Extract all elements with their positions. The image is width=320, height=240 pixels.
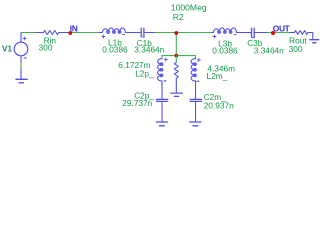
capacitor C1b (141, 28, 144, 36)
node junction top dot (174, 31, 178, 35)
ground under C2m (190, 122, 201, 126)
wire tank bus (162, 55, 196, 57)
inductor L2p_ (158, 59, 163, 81)
L2m plus mark (197, 59, 200, 62)
capacitor C2m_ (190, 99, 201, 101)
ground under C2p (156, 122, 167, 126)
L2m phase mark (197, 80, 199, 82)
ground right of Rout (310, 40, 319, 43)
V1 plus mark (23, 37, 26, 40)
wire C1b to junction (156, 32, 177, 34)
C3b tick mark (252, 37, 255, 39)
svg-text:V1: V1 (2, 44, 12, 53)
wire C3b to OUT (268, 32, 273, 34)
wire V1 top to Rin (21, 32, 36, 34)
V1 bottom lead (20, 56, 22, 63)
V1 top lead (20, 33, 22, 43)
lead L2p to C2p (161, 81, 163, 99)
capacitor C2p_ (156, 99, 167, 101)
svg-text:29.737n: 29.737n (122, 98, 152, 108)
wire stub to L2m (195, 56, 197, 59)
L3b plus mark (213, 35, 216, 38)
svg-text:20.937n: 20.937n (204, 100, 234, 110)
L3b phase mark (234, 34, 236, 36)
resistor Rout (290, 31, 313, 39)
resistor R2 vertical (175, 56, 177, 63)
svg-text:OUT: OUT (273, 24, 291, 34)
capacitor C3b (252, 28, 255, 36)
L1b phase mark (122, 33, 124, 35)
svg-text:300: 300 (39, 43, 53, 53)
V1 minus mark (24, 57, 27, 59)
ground under R2 (171, 93, 182, 96)
svg-text:0.0386: 0.0386 (212, 46, 238, 56)
ground lead under V1 (20, 69, 22, 79)
L1b plus mark (102, 35, 105, 38)
svg-text:L2m_: L2m_ (207, 71, 228, 81)
voltage source V1 (14, 42, 28, 56)
svg-text:IN: IN (70, 24, 78, 34)
C1b tick mark (141, 36, 144, 38)
resistor Rin (36, 31, 70, 35)
wire junction to L3b (176, 32, 212, 34)
wire OUT to Rout (273, 32, 289, 34)
inductor L1b (99, 28, 141, 33)
inductor L2m_ (191, 59, 196, 81)
lead L2m to C2m (195, 81, 197, 99)
svg-text:0.0386: 0.0386 (102, 45, 128, 55)
inductor L3b (212, 28, 251, 33)
svg-text:L2p_: L2p_ (135, 68, 154, 78)
wire junction down (175, 33, 177, 56)
L2p plus mark (164, 58, 167, 61)
node OUT junction dot (271, 31, 275, 35)
ground under V1 (16, 79, 27, 83)
wire V1 bottom to ground (20, 63, 22, 69)
svg-text:3.3464n: 3.3464n (134, 45, 164, 55)
svg-text:300: 300 (289, 44, 303, 54)
L2p phase mark (164, 80, 166, 82)
svg-text:3.3464n: 3.3464n (254, 46, 284, 56)
wire stub to L2p (161, 56, 163, 59)
wire IN segment (70, 32, 99, 34)
node IN junction dot (68, 31, 72, 35)
node junction mid dot (174, 54, 178, 58)
svg-text:R2: R2 (173, 12, 184, 22)
